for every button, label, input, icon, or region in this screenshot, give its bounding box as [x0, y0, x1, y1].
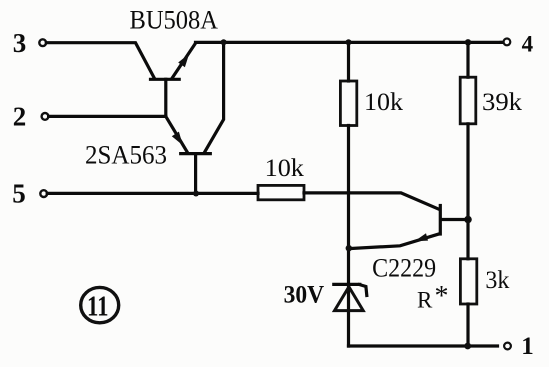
resistor R3 39k body [460, 77, 476, 124]
node on terminal5 wire [193, 191, 199, 197]
transistor Q2 emitter arrow [172, 132, 183, 146]
svg-text:2: 2 [13, 101, 27, 131]
transistor Q1 emitter [173, 43, 196, 77]
transistor Q3 base bar [439, 206, 442, 235]
svg-text:3: 3 [13, 28, 27, 58]
transistor Q3 emitter [353, 234, 440, 249]
node Q3 base / R3 [464, 216, 472, 224]
bottom rail wire [349, 344, 498, 347]
transistor Q1 emitter arrow [178, 54, 189, 68]
transistor Q2 base bar [181, 152, 211, 155]
transistor Q2 base lead [194, 154, 197, 194]
transistor Q2 collector [205, 42, 224, 151]
svg-text:1: 1 [521, 333, 534, 360]
zener diode D1 triangle [335, 287, 364, 311]
figure number 11 circle [81, 287, 119, 322]
resistor R1 10k horizontal body [258, 185, 304, 199]
terminal 3 circle [39, 39, 46, 46]
zener diode D1 cathode hook [360, 285, 367, 296]
svg-text:5: 5 [12, 178, 26, 208]
wire R4 to bottom rail [466, 304, 469, 346]
svg-text:BU508A: BU508A [130, 6, 219, 35]
svg-text:39k: 39k [482, 89, 523, 116]
top rail wire [196, 41, 502, 44]
transistor Q1 BU508A base bar [151, 78, 180, 81]
terminal 2 circle [42, 113, 49, 120]
terminal 5 circle [40, 190, 47, 197]
transistor Q3 emitter arrow [415, 233, 429, 241]
svg-text:2SA563: 2SA563 [85, 140, 167, 169]
transistor Q1 base lead [164, 79, 167, 116]
node bottom rail / R4 [464, 343, 471, 350]
wire terminal5 to resistor R1 [47, 192, 258, 195]
svg-text:R: R [417, 288, 433, 313]
wire R2 down to bottom rail [347, 126, 350, 347]
node top rail / R3 [465, 39, 471, 45]
transistor Q3 base lead [442, 218, 468, 221]
terminal 1 circle [504, 343, 511, 350]
svg-text:10k: 10k [364, 89, 404, 116]
zener diode D1 cathode bar [334, 283, 360, 286]
wire top rail to resistor R2 [347, 42, 350, 81]
svg-text:30V: 30V [284, 282, 325, 309]
resistor R2 10k vertical body [340, 81, 356, 126]
terminal 4 wire stub [501, 41, 503, 44]
svg-text:11: 11 [87, 290, 109, 322]
wire top rail to resistor R3 [466, 42, 469, 77]
node emitter junction [346, 245, 352, 251]
resistor R4 3k body [460, 259, 476, 304]
wire terminal3 to Q1 collector [46, 43, 154, 79]
svg-text:4: 4 [522, 32, 534, 57]
wire R1 to Q3 collector [304, 193, 439, 209]
node top rail / Q2 collector [221, 39, 227, 45]
svg-text:C2229: C2229 [372, 254, 436, 283]
svg-text:10k: 10k [265, 155, 305, 182]
svg-text:3k: 3k [485, 267, 509, 294]
node top rail / R2 [346, 39, 352, 45]
svg-text:*: * [435, 281, 449, 312]
wire R3 to node and resistor R4 [466, 124, 469, 259]
terminal 4 circle [504, 39, 511, 46]
transistor Q2 emitter [166, 116, 188, 152]
wire terminal2 to node [49, 115, 166, 118]
